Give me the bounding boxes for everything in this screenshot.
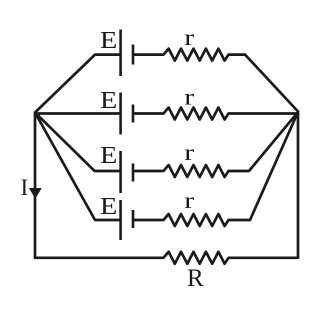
- svg-text:E: E: [100, 87, 117, 114]
- svg-text:r: r: [184, 187, 194, 213]
- svg-text:r: r: [184, 84, 194, 110]
- svg-text:r: r: [184, 24, 194, 50]
- svg-text:E: E: [100, 142, 117, 169]
- svg-text:R: R: [187, 265, 204, 292]
- svg-text:I: I: [21, 175, 29, 200]
- svg-text:E: E: [100, 193, 117, 220]
- svg-text:r: r: [184, 139, 194, 165]
- svg-text:E: E: [100, 27, 117, 54]
